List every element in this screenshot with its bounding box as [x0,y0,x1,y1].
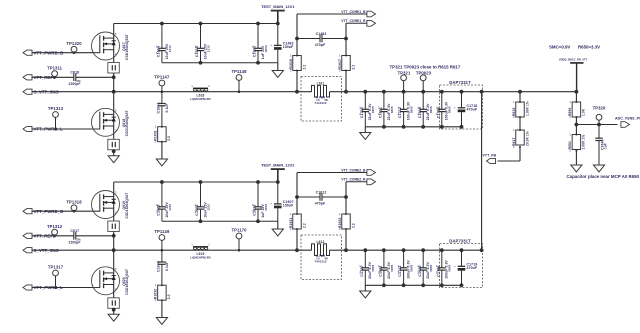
capacitor C1706 [436,92,452,127]
svg-text:LQM2HPN1R0: LQM2HPN1R0 [190,97,211,101]
junction [199,61,203,65]
junction bus / divider [518,90,522,94]
junction [402,125,406,129]
bulk capacitor box DAP7331T [440,238,483,287]
svg-text:1: 1 [155,283,157,287]
note text TP placement [390,64,461,69]
resistor R615 [512,100,530,119]
capacitor C1604 [157,92,169,127]
resistor R617 [512,128,530,149]
capacitor C618 [69,71,81,86]
svg-text:0805: 0805 [390,264,394,271]
junction [344,248,348,252]
svg-text:R1631: R1631 [154,130,158,141]
svg-text:SMC=0.9V: SMC=0.9V [549,45,570,50]
svg-text:TP320: TP320 [593,105,606,110]
svg-text:1: 1 [513,100,515,104]
input flag S_VTT_SNS [23,248,59,253]
svg-text:2.2: 2.2 [302,223,306,228]
wire rail-cap return bus [162,220,278,222]
wire series cap to switch node [76,235,114,237]
svg-text:CSD16404Q5AT: CSD16404Q5AT [125,110,129,136]
wire Q source to sense box [113,208,115,221]
svg-text:TP1312: TP1312 [47,224,63,229]
transistor Q618 low-side MOSFET [91,108,129,136]
junction rail [160,180,164,184]
svg-text:R1632: R1632 [154,289,158,300]
svg-text:TP1320: TP1320 [66,41,82,46]
junction [295,195,299,199]
capacitor C1726 [436,250,452,285]
junction divider node [575,123,579,127]
wire sense line A [296,173,298,251]
svg-text:2.2: 2.2 [351,65,355,70]
svg-text:C1604: C1604 [157,102,161,113]
svg-text:DAP7331T: DAP7331T [449,238,471,243]
input flag VTT_REF2 [23,233,56,238]
junction rail [160,22,164,26]
ground [593,165,604,172]
svg-text:L612: L612 [317,240,325,244]
capacitor C1605 [156,182,172,221]
capacitor C1718 (polarized) [454,92,478,127]
wire gate-drive rail [114,23,278,25]
junction bus [363,248,367,252]
junction switch node / output bus [112,90,116,94]
wire main VTT bus left [32,249,312,251]
svg-text:CSD16404Q5AT: CSD16404Q5AT [125,193,129,219]
junction [344,37,348,41]
test point TP1147 [154,74,170,93]
svg-text:1.00K 1%: 1.00K 1% [525,101,529,116]
svg-text:150uF: 150uF [283,45,294,49]
test point TP321 [401,75,407,92]
wire to series cap [32,76,74,78]
svg-text:R1621: R1621 [289,217,293,228]
capacitor C1606 [195,182,211,221]
svg-text:1: 1 [569,100,571,104]
wire R617 to flag [519,147,521,161]
junction rail [256,180,260,184]
svg-text:1210: 1210 [206,45,210,52]
svg-text:1: 1 [339,54,341,58]
junction bus [402,90,406,94]
input flag VTT_REF1 [23,75,56,80]
junction Q2 source pin [112,149,116,153]
svg-text:TP321 TP0023 close to R615 R61: TP321 TP0023 close to R615 R617 [390,64,461,69]
junction [382,283,386,287]
ground [156,318,167,325]
capacitor C1611 [378,92,394,127]
capacitor C1719 (polarized) [454,250,478,285]
svg-text:1: 1 [513,128,515,132]
capacitor C1722 [398,250,414,285]
capacitor C1607 (polarized) [270,182,294,221]
svg-text:CSD16404Q5AT: CSD16404Q5AT [125,34,129,60]
svg-text:1: 1 [569,133,571,137]
svg-text:VTT_FB: VTT_FB [483,153,497,157]
svg-text:VTT_CORE1_R: VTT_CORE1_R [341,19,366,23]
wire gate-drive rail [114,181,278,183]
test point TP1311 [47,66,63,79]
junction bus [382,90,386,94]
svg-text:0805: 0805 [429,264,433,271]
test point TP1317 [48,264,64,288]
test point TP1148 [231,69,247,93]
junction bus [421,248,425,252]
wire Q drain to rail [113,24,115,39]
wire to R650 [575,92,577,102]
junction Q2 source pin [112,308,116,312]
svg-text:1210: 1210 [168,45,172,52]
wire main VTT bus right [330,249,482,251]
wire to R615 [519,92,521,102]
junction [295,90,299,94]
input flag VTT_PWRD_B [23,50,63,55]
wire gate row 1 [32,52,92,54]
junction [382,125,386,129]
capacitor C1615 [417,92,433,127]
junction [460,283,464,287]
svg-text:2.2: 2.2 [351,223,355,228]
input flag VTT_PWRD_B [23,209,63,214]
capacitor C1712 [398,92,414,127]
wire sense line B [345,182,347,250]
junction bus to shared rail [480,248,484,252]
junction [256,219,260,223]
svg-text:VTT_CORE1_B: VTT_CORE1_B [341,10,366,14]
svg-text:150uF: 150uF [283,204,294,208]
ground [571,165,582,172]
svg-text:2.2: 2.2 [302,65,306,70]
wire sense line B [345,23,347,91]
svg-text:ADC_VSNS_PWR: ADC_VSNS_PWR [615,117,640,121]
junction [402,283,406,287]
capacitor C1608 [157,250,169,285]
wire gate row 1 [32,210,92,212]
junction [344,90,348,94]
wire main VTT bus right [330,91,577,93]
wire cap return bus [365,126,461,128]
junction [460,125,464,129]
test point TP1318 [66,200,82,213]
svg-text:2.0: 2.0 [167,294,171,299]
bulk capacitor box DAP7331T [440,80,483,129]
svg-text:C617: C617 [70,229,79,233]
test point TP1320 [66,41,82,54]
junction rail [199,22,203,26]
junction [421,125,425,129]
svg-text:R650=3.3V: R650=3.3V [578,45,600,50]
wire sense line A [296,14,298,92]
svg-text:7443112: 7443112 [314,101,326,105]
junction rail [276,180,280,184]
junction [440,283,444,287]
input flag VTT_PWRD_L [23,285,63,290]
resistor R651 [568,133,586,153]
svg-text:0805: 0805 [371,264,375,271]
svg-text:2.0: 2.0 [167,136,171,141]
svg-text:0603: 0603 [264,203,268,210]
svg-text:DAP7331T: DAP7331T [449,80,471,85]
inductor L612 in dashed box [301,235,342,280]
junction rail [256,22,260,26]
svg-text:LQM2HPN1R0: LQM2HPN1R0 [190,255,211,259]
svg-text:20.0K 1%: 20.0K 1% [525,131,529,146]
jumper box J619 [108,221,120,232]
junction [295,37,299,41]
resistor R650 [568,100,586,119]
svg-text:TEST_MAIN_12V1: TEST_MAIN_12V1 [261,4,295,9]
resistor R1622 [338,212,356,231]
capacitor C1625 [417,250,433,285]
svg-text:0.1uF: 0.1uF [165,103,169,112]
capacitor C1613 [252,182,268,221]
junction bus to shared rail [480,90,484,94]
junction switch node / ref cap [112,75,116,79]
junction bus end [575,90,579,94]
resistor R1618 [289,54,307,73]
wire cap return bus [365,284,461,286]
svg-text:R1617: R1617 [338,59,342,70]
wire R615 to R617 [519,117,521,130]
svg-text:1.00K 1%: 1.00K 1% [582,135,586,150]
svg-text:VDDQ_SMCC_OR_VTT: VDDQ_SMCC_OR_VTT [559,58,588,62]
capacitor C1482 (polarized) [270,24,294,63]
power flag VDDQ_SMCC_OR_VTT [559,58,588,92]
capacitor C1615 [195,24,211,63]
output flag VTT_CORE2_B [297,168,376,175]
wire switch node vertical [113,232,115,273]
wire to VTT_FB flag [498,160,521,162]
svg-text:L611: L611 [317,81,325,85]
ground [360,133,371,140]
transistor Q617 high-side MOSFET [91,32,129,60]
svg-text:TP1149: TP1149 [154,229,170,234]
svg-text:0805: 0805 [429,106,433,113]
junction bus [460,248,464,252]
junction [421,283,425,287]
svg-text:TP1318: TP1318 [66,200,82,205]
junction [295,248,299,252]
capacitor C1612 470pF [297,190,346,205]
svg-text:R1618: R1618 [289,59,293,70]
svg-text:0805: 0805 [448,106,452,113]
junction [199,219,203,223]
wire Q drain to rail [113,182,115,197]
wire Q source to sense box [113,50,115,63]
svg-text:C1612: C1612 [316,190,327,194]
note text SMC voltage [549,45,600,50]
svg-text:7443112: 7443112 [314,259,326,263]
wire main VTT bus left [32,91,312,93]
test point TP320 [593,105,606,124]
svg-text:TP1313: TP1313 [48,106,64,111]
svg-text:1210: 1210 [168,203,172,210]
svg-text:TP1147: TP1147 [154,74,170,79]
wire rail-cap return bus [162,62,278,64]
capacitor C1720 [359,250,375,285]
wire to ground [113,150,115,156]
junction bus [382,248,386,252]
wire shared VTT rail vertical [481,92,483,251]
svg-text:R1622: R1622 [338,217,342,228]
capacitor C1483 470pF [297,32,346,47]
svg-text:470uF: 470uF [467,108,478,112]
svg-text:470pF: 470pF [315,202,326,206]
svg-text:470pF: 470pF [315,43,326,47]
svg-text:0805: 0805 [410,264,414,271]
wire series cap to switch node [76,76,114,78]
resistor R1621 [289,212,307,231]
junction bus [421,90,425,94]
output flag VTT_FB [483,153,497,163]
svg-text:VTT_CORE2_R: VTT_CORE2_R [341,178,366,182]
junction [440,125,444,129]
svg-text:0.1uF: 0.1uF [165,262,169,271]
wire to ground [364,285,366,291]
output flag VTT_CORE1_R [341,19,375,26]
wire divider node to ADC flag [576,124,617,126]
svg-text:TP1148: TP1148 [231,69,247,74]
power flag TEST_MAIN_12V1 [261,4,295,23]
svg-text:1: 1 [339,212,341,216]
test point TP1313 [48,106,64,130]
wire switch node vertical [113,73,115,114]
input flag S_VTT_SNS [23,89,59,94]
capacitor C1621 [378,250,394,285]
junction [344,195,348,199]
junction bus [440,90,444,94]
svg-text:CSD16404Q5AT: CSD16404Q5AT [125,269,129,295]
capacitor C1710 [359,92,375,127]
ground [156,159,167,166]
svg-text:1uF: 1uF [604,143,608,149]
wire to series cap [32,235,74,237]
wire to ground [277,221,279,229]
jumper box J620 [108,298,120,309]
jumper box J618 [108,139,120,150]
capacitor C1603 [252,24,268,63]
junction switch node / ref cap [112,234,116,238]
svg-text:R617: R617 [512,137,516,146]
wire gate row 4 [32,128,92,130]
power flag TEST_MAIN_12V2 [261,163,295,182]
wire to ground [575,151,577,166]
svg-text:R650: R650 [568,107,572,116]
junction bus [402,248,406,252]
ground [108,156,119,163]
svg-text:R615: R615 [512,107,516,116]
ground [360,291,371,298]
svg-text:VTT_CORE2_B: VTT_CORE2_B [341,168,366,172]
capacitor C617 [69,229,81,244]
capacitor C1614 [156,24,172,63]
wire to ground [113,308,115,314]
test point TP1170 [231,227,247,251]
svg-text:TP1317: TP1317 [48,264,64,269]
junction [256,61,260,65]
ground [108,314,119,321]
wire Q2 source [113,126,115,139]
inductor L619 1.0uH [190,244,211,260]
svg-text:1: 1 [290,212,292,216]
wire divider node [575,117,577,135]
resistor R1632 [154,283,172,302]
svg-text:0805: 0805 [371,106,375,113]
svg-text:C1608: C1608 [157,261,161,272]
output flag ADC_VSNS [615,117,640,128]
wire to ground [161,142,163,159]
svg-text:1: 1 [290,54,292,58]
inductor L611 in dashed box [301,77,342,122]
svg-text:C1483: C1483 [316,32,327,36]
svg-text:0603: 0603 [264,45,268,52]
svg-text:TP1170: TP1170 [231,227,247,232]
test point TP1312 [47,224,63,237]
wire to ground [161,300,163,317]
ground [272,71,283,78]
inductor L618 1.0uH [190,85,211,101]
resistor R1617 [338,54,356,73]
svg-text:1.0K: 1.0K [582,108,586,116]
ground [272,229,283,236]
svg-text:470uF: 470uF [467,266,478,270]
svg-text:C618: C618 [70,71,79,75]
junction rail [199,180,203,184]
svg-text:TEST_MAIN_12V2: TEST_MAIN_12V2 [261,163,295,168]
wire Q2 source [113,285,115,298]
junction bus [460,90,464,94]
output flag VTT_CORE1_B [297,10,376,17]
svg-text:1: 1 [155,125,157,129]
resistor R1631 [154,125,172,144]
junction rail [276,22,280,26]
svg-text:R651: R651 [568,141,572,150]
junction switch node / output bus [112,248,116,252]
wire to ground [277,63,279,71]
svg-text:1210: 1210 [206,203,210,210]
output flag VTT_CORE2_R [341,178,375,185]
test point TP0023 [420,75,426,92]
note text capacitor placement [567,174,640,179]
svg-text:2200pF: 2200pF [69,241,81,245]
wire to ground [364,127,366,133]
jumper box J617 [108,63,120,74]
svg-text:0805: 0805 [390,106,394,113]
test point TP321 label [398,70,411,75]
capacitor C1648 [595,125,607,166]
input flag VTT_PWRD_L [23,126,63,131]
svg-text:2200pF: 2200pF [69,82,81,86]
test point TP0023 label [416,70,432,75]
transistor Q619 high-side MOSFET [91,191,129,219]
svg-text:0805: 0805 [410,106,414,113]
junction TP/C leg [597,123,601,127]
wire gate row 4 [32,287,92,289]
svg-text:TP1311: TP1311 [47,66,63,71]
svg-text:Capacitor place near MCP A0 R6: Capacitor place near MCP A0 R650 [567,174,640,179]
junction bus [440,248,444,252]
svg-text:0805: 0805 [448,264,452,271]
test point TP1149 [154,229,170,252]
transistor Q620 low-side MOSFET [91,267,129,295]
junction bus [363,90,367,94]
